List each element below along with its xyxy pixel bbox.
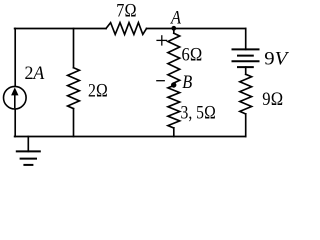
resistor R4 3,5Ω xyxy=(168,86,180,129)
svg-text:3, 5Ω: 3, 5Ω xyxy=(181,102,217,123)
resistor R2 2Ω xyxy=(68,68,80,109)
svg-text:9Ω: 9Ω xyxy=(262,89,283,110)
node A junction dot xyxy=(171,26,176,31)
wire middle branch lower lead xyxy=(173,128,175,137)
wire right vertical upper xyxy=(245,29,247,50)
svg-text:2A: 2A xyxy=(25,63,45,84)
resistor R1 7Ω (top horizontal) xyxy=(106,23,147,35)
wire node A stub xyxy=(173,29,175,34)
wire 2Ω branch upper lead xyxy=(73,29,75,68)
wire 2Ω branch lower lead xyxy=(73,109,75,137)
svg-text:B: B xyxy=(182,72,192,93)
wire top left segment xyxy=(15,28,106,30)
svg-text:A: A xyxy=(169,8,181,29)
resistor R3 6Ω xyxy=(168,33,180,83)
polarity minus sign xyxy=(156,80,165,82)
svg-text:7Ω: 7Ω xyxy=(116,1,137,22)
current source I1 2A xyxy=(4,86,27,109)
svg-text:2Ω: 2Ω xyxy=(88,80,108,101)
wire bottom xyxy=(15,136,246,138)
ground xyxy=(16,151,41,165)
wire top right segment xyxy=(147,28,246,30)
wire left vertical xyxy=(14,29,16,137)
battery V1 9V plates xyxy=(232,49,260,67)
node B junction dot xyxy=(171,82,176,87)
wire battery to 9Ω lead xyxy=(245,67,247,74)
polarity plus sign xyxy=(156,35,167,45)
svg-text:9V: 9V xyxy=(264,49,289,70)
wire ground stub xyxy=(27,137,29,152)
svg-text:6Ω: 6Ω xyxy=(182,44,203,65)
wire right vertical lower xyxy=(245,114,247,137)
resistor R5 9Ω xyxy=(240,74,252,114)
